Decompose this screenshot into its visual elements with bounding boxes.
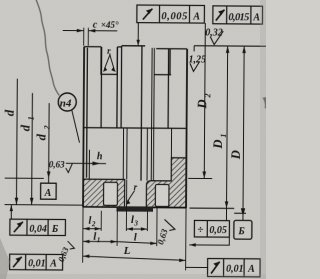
svg-text:D: D [211, 140, 225, 150]
svg-text:d: d [19, 124, 33, 131]
svg-text:A: A [44, 188, 52, 199]
svg-text:2: 2 [91, 220, 96, 228]
svg-text:0,05: 0,05 [209, 225, 227, 236]
svg-text:÷: ÷ [197, 224, 203, 236]
svg-text:A: A [192, 11, 200, 22]
svg-text:0,005: 0,005 [161, 11, 187, 22]
svg-text:D: D [195, 99, 209, 109]
svg-text:0,01: 0,01 [28, 258, 46, 269]
svg-text:l: l [134, 233, 137, 244]
svg-text:Б: Б [237, 226, 245, 237]
svg-text:0,01: 0,01 [226, 264, 244, 275]
svg-text:n4: n4 [60, 97, 72, 109]
svg-text:Б: Б [51, 224, 59, 235]
svg-text:d: d [34, 133, 48, 140]
svg-text:0,015: 0,015 [228, 12, 249, 23]
svg-text:d: d [3, 109, 17, 116]
svg-text:h: h [97, 151, 103, 162]
svg-text:0,04: 0,04 [29, 224, 47, 235]
svg-text:1: 1 [27, 116, 36, 120]
svg-text:A: A [49, 258, 57, 269]
svg-text:1,25: 1,25 [189, 54, 207, 65]
svg-text:A: A [247, 264, 255, 275]
svg-text:L: L [123, 245, 131, 257]
svg-text:2: 2 [43, 125, 52, 130]
svg-text:×45°: ×45° [101, 20, 119, 30]
svg-text:1: 1 [97, 236, 101, 244]
svg-text:1: 1 [219, 134, 228, 138]
svg-text:A: A [252, 12, 260, 23]
svg-text:r: r [107, 46, 111, 56]
svg-text:0,32: 0,32 [205, 28, 223, 39]
svg-text:D: D [229, 150, 243, 160]
svg-text:0,63: 0,63 [49, 159, 65, 169]
svg-text:2: 2 [203, 93, 212, 98]
svg-text:3: 3 [133, 220, 138, 228]
